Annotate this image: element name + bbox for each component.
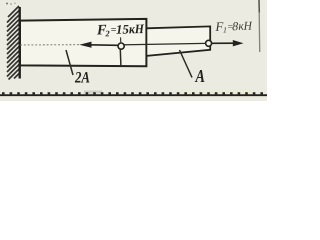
- svg-text:кН: кН: [129, 21, 145, 36]
- svg-text:кН: кН: [238, 19, 253, 33]
- svg-text:15: 15: [116, 22, 130, 37]
- svg-text:А: А: [195, 66, 205, 86]
- svg-text:2: 2: [104, 28, 110, 38]
- svg-text:2А: 2А: [74, 70, 90, 87]
